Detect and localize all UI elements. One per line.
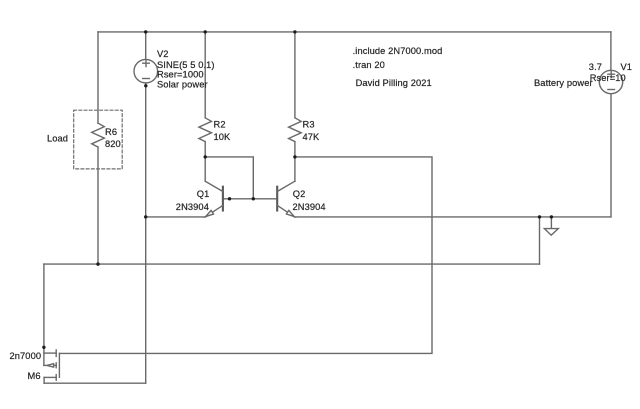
label V2 comment xyxy=(157,80,208,90)
junction R6 bottom xyxy=(96,262,99,265)
label Q1 value xyxy=(176,202,209,212)
wire V2 bottom lead xyxy=(145,83,147,217)
svg-text:820: 820 xyxy=(105,139,121,149)
svg-text:2N3904: 2N3904 xyxy=(293,202,326,212)
junction V2 top xyxy=(144,30,147,33)
label V1 value xyxy=(589,62,602,72)
transistor M6 xyxy=(44,350,60,383)
svg-text:Solar power: Solar power xyxy=(157,80,208,90)
label V1 name xyxy=(621,62,633,72)
label M6 value xyxy=(10,351,42,361)
voltage source V1 xyxy=(599,70,622,93)
svg-text:Q2: Q2 xyxy=(293,189,306,199)
wire R2 bottom lead xyxy=(204,142,206,182)
wire Q1 collector node to cross-connect xyxy=(205,157,253,199)
wire R3 node to M6 gate xyxy=(59,157,432,354)
label V2 Rser xyxy=(157,70,204,80)
svg-text:.include 2N7000.mod: .include 2N7000.mod xyxy=(353,46,443,56)
label R3 name xyxy=(303,120,315,130)
label tran directive xyxy=(353,60,385,70)
label Q2 name xyxy=(293,189,306,199)
svg-text:2N3904: 2N3904 xyxy=(176,202,209,212)
svg-text:SINE(5 5 0.1): SINE(5 5 0.1) xyxy=(157,60,215,70)
transistor Q2 xyxy=(277,181,295,217)
wire ground rail horizontal xyxy=(44,263,540,265)
svg-text:2n7000: 2n7000 xyxy=(10,351,42,361)
svg-text:M6: M6 xyxy=(28,371,41,381)
label Q1 name xyxy=(197,189,210,199)
svg-text:R2: R2 xyxy=(214,120,226,130)
wire base rail Q1-Q2 xyxy=(223,198,277,200)
label author comment xyxy=(356,78,432,88)
resistor R6 xyxy=(92,123,105,147)
svg-text:Q1: Q1 xyxy=(197,189,210,199)
svg-text:10K: 10K xyxy=(214,132,232,142)
wire R2 top lead xyxy=(204,32,206,118)
label Load xyxy=(47,134,68,144)
svg-text:Rser=1000: Rser=1000 xyxy=(157,70,204,80)
label R2 name xyxy=(214,120,226,130)
label R2 value xyxy=(214,132,232,142)
junction emitter rail left xyxy=(144,215,147,218)
load box dashed xyxy=(74,110,123,169)
junction ground symbol xyxy=(550,215,553,218)
junction Q1 base xyxy=(228,197,231,200)
wire Q2 emitter rail to V1 xyxy=(295,216,611,218)
svg-text:R3: R3 xyxy=(303,120,315,130)
junction R3 bottom node xyxy=(293,155,296,158)
svg-text:Battery power: Battery power xyxy=(534,78,593,88)
svg-text:.tran 20: .tran 20 xyxy=(353,60,385,70)
wire V1 top lead xyxy=(610,32,612,70)
wire V1 bottom lead xyxy=(610,94,612,217)
junction R2 bottom node xyxy=(204,155,207,158)
wire V2 column to M6 source return xyxy=(145,217,147,383)
wire Q1 emitter rail xyxy=(146,216,206,218)
wire R3 bottom lead xyxy=(294,142,296,182)
wire ground rail to M6 xyxy=(43,264,45,365)
svg-text:David Pilling 2021: David Pilling 2021 xyxy=(356,78,432,88)
wire ground rail drop xyxy=(539,217,541,264)
junction base tie xyxy=(252,197,255,200)
junction ground drop xyxy=(538,215,541,218)
wire R6 bottom lead xyxy=(97,147,99,264)
junction M6 gate xyxy=(42,346,45,349)
label include directive xyxy=(353,46,443,56)
wire R6 top lead xyxy=(97,32,99,123)
transistor Q1 xyxy=(205,181,223,217)
label Q2 value xyxy=(293,202,326,212)
wire V2 top lead xyxy=(145,32,147,60)
label V1 Rser xyxy=(590,73,626,83)
wire top rail xyxy=(98,31,611,33)
label V2 value xyxy=(157,60,215,70)
label R3 value xyxy=(303,132,321,142)
wire R3 top lead xyxy=(294,32,296,118)
junction R2 top xyxy=(204,30,207,33)
junction R3 top xyxy=(293,30,296,33)
svg-text:V2: V2 xyxy=(157,49,169,59)
ground xyxy=(544,217,558,235)
wire M6 source bottom rail xyxy=(44,382,146,384)
label V2 name xyxy=(157,49,169,59)
label R6 name xyxy=(105,127,117,137)
resistor R3 xyxy=(289,118,302,142)
svg-text:47K: 47K xyxy=(303,132,321,142)
svg-text:V1: V1 xyxy=(621,62,633,72)
resistor R2 xyxy=(199,118,212,142)
voltage source V2 xyxy=(134,59,158,83)
svg-text:3.7: 3.7 xyxy=(589,62,602,72)
label M6 name xyxy=(28,371,41,381)
label R6 value xyxy=(105,139,121,149)
junction V2 minus xyxy=(144,84,147,87)
svg-text:R6: R6 xyxy=(105,127,117,137)
svg-text:Load: Load xyxy=(47,134,68,144)
svg-text:Rser=10: Rser=10 xyxy=(590,73,626,83)
label V1 comment xyxy=(534,78,593,88)
